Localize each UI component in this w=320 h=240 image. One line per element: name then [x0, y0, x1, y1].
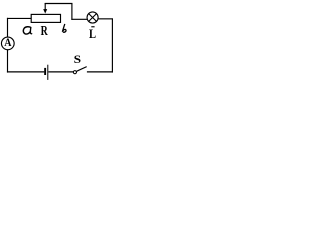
label L	[89, 28, 96, 41]
svg-text:L: L	[89, 28, 96, 41]
ammeter A	[1, 37, 14, 50]
rheostat wiper stem	[44, 3, 46, 10]
resistor R (rheostat body)	[31, 14, 60, 22]
small dash artifact above label L	[91, 26, 94, 27]
label b (right terminal, italic)	[62, 24, 64, 32]
svg-text:A: A	[4, 37, 11, 50]
wire left vertical upper	[7, 18, 9, 37]
label a (left terminal, italic)	[23, 27, 31, 34]
label R	[41, 22, 48, 38]
lamp L	[87, 12, 98, 23]
wire top-left horizontal (ammeter to rheostat terminal a)	[7, 17, 31, 19]
wire lamp to right corner	[98, 18, 113, 20]
wire right vertical	[111, 18, 113, 72]
svg-text:S: S	[74, 53, 81, 66]
label S	[74, 53, 81, 66]
switch S blade	[77, 67, 87, 72]
rheostat wiper arrowhead	[43, 9, 47, 13]
wire right vertical drop from top run	[71, 3, 73, 20]
svg-text:R: R	[41, 22, 48, 38]
battery cell: long thin plate	[47, 65, 48, 80]
wire battery to switch	[48, 71, 73, 73]
wire top horizontal run (wiper to drop)	[45, 3, 73, 5]
wire left vertical lower	[7, 50, 9, 73]
wire switch to bottom-right corner	[87, 71, 113, 73]
wire bottom-left horizontal	[7, 71, 44, 73]
battery cell: short thick plate	[44, 68, 46, 75]
wire drop-corner to lamp	[71, 18, 87, 20]
switch S contact circle	[73, 71, 76, 74]
